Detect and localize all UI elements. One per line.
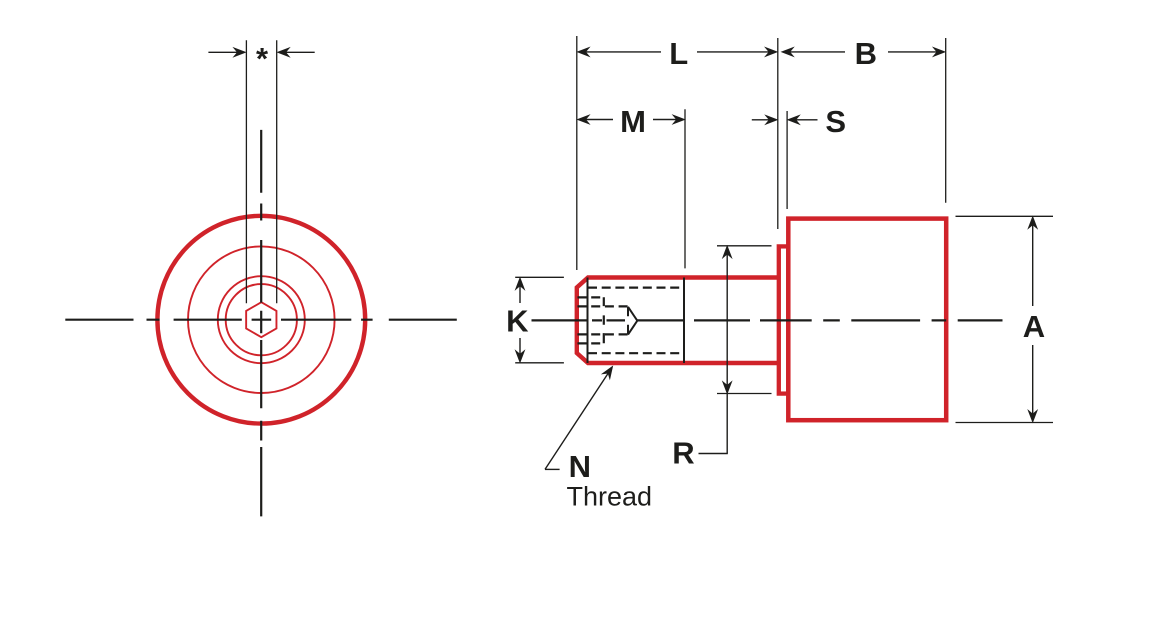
- cylinder (retainer body): [788, 219, 946, 421]
- K dimension: [516, 279, 524, 362]
- svg-text:L: L: [669, 36, 688, 71]
- * extension line left: [245, 40, 247, 303]
- L dimension: [578, 48, 776, 56]
- A extension lines: [956, 216, 1054, 422]
- L/B/S shared extension line: [777, 38, 779, 229]
- collar / flange: [779, 246, 789, 393]
- * dimension arrows: [208, 49, 314, 57]
- svg-text:S: S: [825, 104, 846, 139]
- svg-text:K: K: [506, 304, 529, 339]
- chamfer edge line: [587, 278, 589, 364]
- svg-text:*: *: [256, 41, 269, 76]
- front view vertical centerline: [260, 130, 262, 517]
- side view screw body outline: [577, 278, 779, 364]
- drill point cone: [628, 307, 637, 335]
- S extension line: [786, 111, 788, 209]
- svg-text:A: A: [1023, 309, 1045, 344]
- front view horizontal centerline: [65, 319, 457, 321]
- thread OD hidden lines: [588, 288, 684, 354]
- thread end line: [683, 278, 685, 364]
- N thread leader: [545, 367, 612, 469]
- front view counterbore ring: [218, 276, 305, 363]
- R dimension line: [699, 247, 732, 454]
- M extension line: [684, 109, 686, 268]
- side view centerline: [532, 319, 1003, 321]
- A dimension: [1029, 218, 1037, 422]
- hex socket: [246, 302, 276, 337]
- B right extension line: [945, 38, 947, 203]
- * extension line right: [276, 40, 278, 303]
- K extension lines: [515, 277, 564, 363]
- thread minor hidden lines: [578, 306, 629, 334]
- svg-text:B: B: [855, 36, 877, 71]
- svg-text:M: M: [620, 104, 646, 139]
- M dimension: [578, 116, 684, 124]
- front view socket chamfer ring: [226, 284, 297, 355]
- R extension lines: [717, 246, 772, 394]
- S dimension: [752, 116, 818, 124]
- svg-text:N: N: [569, 449, 591, 484]
- svg-text:Thread: Thread: [567, 482, 653, 512]
- B dimension: [783, 48, 945, 56]
- front view outer circle (body diameter A): [157, 216, 365, 424]
- svg-text:R: R: [672, 436, 694, 471]
- tap drill hidden lines: [578, 297, 605, 343]
- front view head circle: [188, 246, 335, 393]
- L extension line left: [576, 36, 578, 270]
- hidden vertical thread depth line: [603, 297, 605, 343]
